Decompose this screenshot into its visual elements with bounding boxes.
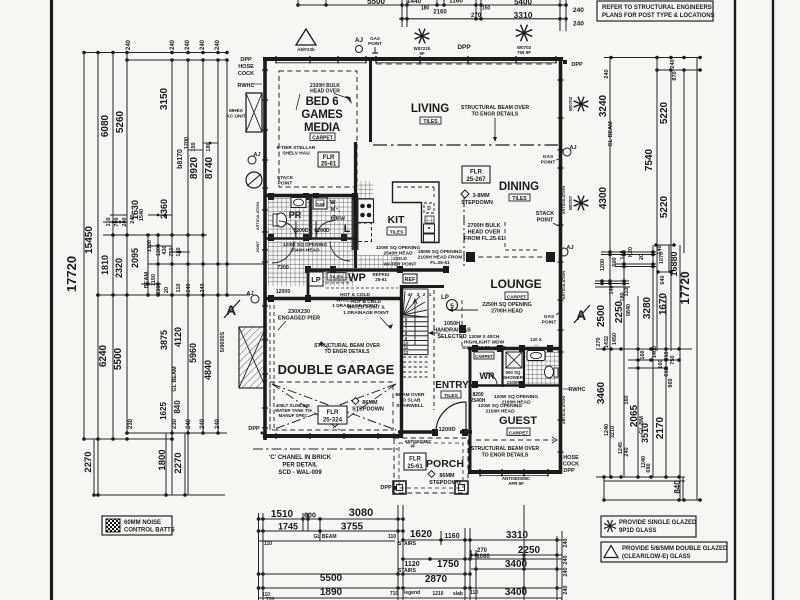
svg-text:1450: 1450 [612,333,618,345]
svg-text:7200D: 7200D [293,228,309,234]
svg-text:3310: 3310 [514,10,533,20]
svg-text:5: 5 [450,303,454,310]
svg-text:HEAD OVER: HEAD OVER [310,89,340,95]
kitchen fridge [424,224,435,233]
svg-text:POINT: POINT [278,181,293,187]
svg-text:8740: 8740 [204,156,215,179]
svg-text:...: ... [534,342,538,347]
svg-text:240: 240 [215,39,221,50]
wall wr right [501,349,503,388]
svg-text:20: 20 [639,254,645,260]
lounge pier dashes [470,256,552,258]
svg-text:REFER TO STRUCTURAL ENGINEERS: REFER TO STRUCTURAL ENGINEERS [602,5,712,11]
svg-text:3310: 3310 [506,530,529,541]
right dim vertical lines [609,58,611,478]
svg-text:750: 750 [169,247,175,256]
svg-text:RWHC: RWHC [568,387,585,393]
svg-text:240: 240 [200,418,206,429]
svg-text:TO SLAB: TO SLAB [400,398,422,404]
svg-text:2270: 2270 [173,452,184,473]
wall top exterior [263,57,563,61]
svg-text:3460: 3460 [596,381,607,404]
svg-text:WATER POINT: WATER POINT [384,262,417,268]
garage dashed inner left [269,305,271,430]
svg-text:240: 240 [563,585,569,594]
bottom dim vertical lines [258,513,260,600]
dining bulkhead dashes [504,222,506,250]
pr door arc [279,221,296,238]
left dim vertical lines [83,53,85,440]
svg-text:POINT: POINT [541,160,556,166]
svg-text:b8170: b8170 [177,149,184,169]
svg-text:LP: LP [441,295,449,301]
bed6 flr tag [318,152,339,167]
svg-text:2320: 2320 [114,258,124,278]
svg-text:2160: 2160 [433,10,447,16]
wr door arc [485,373,497,385]
svg-text:TILES: TILES [390,230,404,236]
svg-text:240: 240 [624,447,630,456]
svg-text:STRUCTURAL BEAM OVER: STRUCTURAL BEAM OVER [461,105,529,111]
svg-text:2250: 2250 [614,300,625,323]
wall left exterior [263,57,267,440]
svg-text:TUB: TUB [316,202,324,207]
svg-text:GL BEAM: GL BEAM [608,121,614,147]
pr toilet [276,213,287,227]
dining stepdown note [461,190,469,198]
svg-text:PR: PR [289,210,302,220]
wall hall-wp [308,268,449,271]
wall guest left [469,430,472,473]
svg-text:TILES: TILES [444,393,458,399]
svg-text:TO ENGR DETAILS: TO ENGR DETAILS [472,112,519,118]
window asterisk right upper [581,104,588,107]
svg-text:TO ENGR DETAILS: TO ENGR DETAILS [482,453,529,459]
svg-text:180W SQ OPENING: 180W SQ OPENING [418,249,463,255]
svg-text:2360: 2360 [159,199,169,219]
svg-text:1400: 1400 [652,346,658,358]
svg-text:CONTROL BATTS: CONTROL BATTS [124,528,175,534]
wall entry right [469,349,472,435]
svg-text:6080: 6080 [100,114,111,137]
svg-text:160: 160 [624,395,630,404]
svg-text:1210: 1210 [432,591,443,597]
svg-text:STAIRWELL: STAIRWELL [396,403,424,409]
svg-text:240: 240 [186,418,192,429]
living sill dashes [376,63,556,65]
svg-text:1 DRAINAGE POINT: 1 DRAINAGE POINT [343,310,389,316]
svg-text:3875: 3875 [159,330,169,350]
svg-text:ARTICULATION: ARTICULATION [256,202,260,230]
svg-text:TO ENGR DETAILS: TO ENGR DETAILS [324,349,370,355]
frame right outer border line [772,0,774,600]
svg-text:1050H: 1050H [444,321,460,327]
svg-text:1620: 1620 [410,529,433,540]
dining flr tag [462,166,490,183]
svg-text:COLD: COLD [393,256,407,262]
svg-text:HOSE: HOSE [563,455,579,461]
laundry fw [331,215,336,220]
svg-text:1810: 1810 [100,255,110,275]
left dim top connectors [84,52,227,54]
wall garage top [264,297,403,300]
svg-text:600: 600 [304,513,316,520]
svg-text:DPP: DPP [380,485,392,491]
svg-text:DINING: DINING [499,181,539,193]
svg-text:3400: 3400 [505,559,528,570]
svg-text:slab: slab [453,591,463,597]
svg-text:GAMES: GAMES [301,109,343,121]
svg-text:1625: 1625 [159,402,168,420]
svg-text:HIGHLIGHT WDW: HIGHLIGHT WDW [464,340,505,346]
svg-text:JOINT: JOINT [256,241,260,253]
svg-text:PROVIDE 5/8/5MM DOUBLE GLAZED: PROVIDE 5/8/5MM DOUBLE GLAZED [622,546,728,552]
svg-text:240: 240 [186,283,192,292]
entry door arc [436,402,466,432]
svg-text:9F: 9F [419,51,425,56]
svg-text:25-267: 25-267 [466,176,486,183]
svg-text:STRUCTURAL BEAM OVER: STRUCTURAL BEAM OVER [471,446,539,452]
porch post right [455,481,468,494]
svg-text:700: 700 [114,217,120,226]
svg-text:870: 870 [672,71,678,80]
svg-text:2270: 2270 [83,451,94,472]
wall garage bottom [263,434,400,438]
kitchen bench dashed inner [397,187,434,197]
svg-text:GL BEAM: GL BEAM [314,534,337,540]
svg-text:SCD - WAL-009: SCD - WAL-009 [278,470,322,476]
svg-text:1060: 1060 [476,554,490,560]
svg-text:8-TIER STELLAR: 8-TIER STELLAR [277,145,316,151]
svg-text:3240: 3240 [598,94,609,117]
svg-text:5260: 5260 [115,110,126,133]
svg-text:25-324: 25-324 [323,417,343,424]
svg-text:POINT: POINT [542,320,557,326]
svg-text:2540H HEAD: 2540H HEAD [290,248,320,254]
hatched pier rect [239,327,266,388]
svg-text:1200D: 1200D [438,427,455,433]
svg-text:240: 240 [200,283,206,292]
svg-text:160: 160 [640,350,646,359]
svg-text:W0702: W0702 [568,96,573,111]
wall guest bottom ticks [479,469,481,475]
tiles powder-laundry area [268,198,353,238]
svg-text:25-61: 25-61 [407,464,423,470]
svg-text:DPP: DPP [571,62,583,68]
svg-text:COCK: COCK [563,462,579,468]
bath shower [506,352,522,368]
porch dashed outline [394,438,468,493]
svg-text:2170: 2170 [655,416,666,439]
laundry door arc [316,221,333,238]
svg-text:240: 240 [573,7,584,14]
wall right exterior [559,57,563,474]
svg-text:1160: 1160 [449,0,463,5]
left dim bottom connectors [127,432,227,434]
svg-text:2100H HEAD: 2100H HEAD [501,400,531,406]
svg-text:W: W [330,200,336,206]
svg-text:FLR: FLR [409,457,421,463]
svg-text:690: 690 [646,463,652,472]
svg-text:'C' CHANEL IN BRICK: 'C' CHANEL IN BRICK [269,455,332,461]
svg-text:BEAM OVER: BEAM OVER [395,392,425,398]
wall wp left [307,270,310,298]
porch stepdown note [428,471,435,478]
svg-text:1100: 1100 [147,240,153,252]
svg-text:GL BM: GL BM [639,416,645,434]
svg-text:(CLEAR/LOW-E) GLASS: (CLEAR/LOW-E) GLASS [622,554,691,560]
circle 5 marker [447,300,458,311]
svg-text:GAS: GAS [543,154,554,160]
svg-text:AJ: AJ [355,37,364,44]
svg-text:120W SQ OPENING: 120W SQ OPENING [283,242,328,248]
left dim middle connectors [103,234,207,236]
svg-text:2870: 2870 [425,574,448,585]
svg-text:640: 640 [660,275,666,284]
svg-text:2250: 2250 [518,545,541,556]
svg-text:12000: 12000 [276,289,291,295]
svg-text:STACK: STACK [277,175,294,181]
svg-text:COCK: COCK [238,71,254,77]
svg-text:LIVING: LIVING [411,103,449,115]
svg-text:3150: 3150 [159,87,170,110]
svg-text:5960: 5960 [188,343,198,363]
lounge opening arrow [452,309,478,311]
svg-text:140: 140 [620,250,626,259]
svg-text:3755: 3755 [341,522,364,533]
svg-text:0840: 0840 [626,304,632,316]
bottom dim horizontal lines [259,518,404,520]
svg-text:1200: 1200 [184,137,190,149]
svg-text:240: 240 [200,39,206,50]
svg-text:240: 240 [170,39,176,50]
tiles kitchen splashback [357,181,373,199]
svg-text:9P1D GLASS: 9P1D GLASS [619,528,656,534]
frame right inner border line [734,0,736,600]
tiles hall area [268,241,354,286]
svg-text:240: 240 [126,39,132,50]
svg-text:DPP: DPP [248,426,260,432]
svg-text:ARTICULATION: ARTICULATION [562,271,566,299]
svg-text:DPP: DPP [457,44,471,51]
svg-text:3080: 3080 [349,507,373,519]
svg-text:200: 200 [122,217,128,226]
svg-text:MHEX: MHEX [229,108,244,114]
svg-text:120W SQ OPENING: 120W SQ OPENING [494,394,539,400]
svg-text:860: 860 [668,378,674,387]
svg-text:POINT: POINT [537,218,554,224]
svg-text:ENTRY: ENTRY [435,380,469,391]
svg-text:5220: 5220 [659,101,670,124]
svg-text:POINT: POINT [368,41,382,46]
garage dashed box [270,382,393,430]
svg-text:1745: 1745 [278,522,298,532]
svg-text:5500: 5500 [113,347,124,370]
svg-text:D: D [427,206,431,212]
svg-text:TILES: TILES [330,275,344,281]
svg-text:240: 240 [573,21,584,28]
svg-text:FLR: FLR [470,169,483,176]
window symbol asterisk W0702 [524,33,532,36]
svg-text:2500: 2500 [596,304,607,327]
svg-text:7200: 7200 [277,265,289,271]
svg-text:240: 240 [563,538,569,547]
svg-text:L: L [344,223,351,235]
wall wr bottom [470,384,524,386]
wp shelf dashes [326,282,350,284]
kitchen cooktop [358,199,374,223]
svg-text:M: M [331,207,336,213]
svg-text:K20: K20 [628,247,634,257]
wp lp tag [309,272,323,286]
garage c-channel dashdot [253,448,398,450]
svg-text:240: 240 [130,214,136,223]
svg-text:5220: 5220 [659,195,670,218]
svg-text:GAS: GAS [544,314,555,320]
svg-text:20: 20 [164,287,170,293]
svg-text:1670: 1670 [658,292,669,315]
living beam arrow [494,118,496,138]
garage flr tag [318,406,347,424]
svg-text:2100H: 2100H [507,380,520,385]
svg-text:110: 110 [264,541,272,547]
svg-text:PROVIDE SINGLE GLAZED: PROVIDE SINGLE GLAZED [619,520,697,526]
svg-text:CARPET: CARPET [312,136,333,142]
svg-text:legend: legend [404,590,420,596]
svg-text:240: 240 [185,39,191,50]
svg-text:STAIRS: STAIRS [398,568,417,574]
svg-text:LOUNGE: LOUNGE [490,277,541,291]
hall door arcs [272,241,294,263]
garage diag dashdot 2 [272,384,396,430]
wall bath bottom [524,384,562,386]
legend single glazed [601,516,696,537]
kitchen pantry hatch [425,216,434,223]
svg-text:ARTICULATION: ARTICULATION [562,186,566,214]
svg-text:180: 180 [206,142,212,151]
svg-text:12: 12 [404,350,409,355]
svg-text:270: 270 [471,13,482,19]
garage diag dashdot 1 [272,384,396,430]
bed6 dashed robe rect [279,71,357,187]
double-glazed triangle symbol [296,29,316,45]
svg-text:STAIRS: STAIRS [398,541,417,547]
svg-text:STEPDOWN: STEPDOWN [461,200,493,206]
svg-text:2095: 2095 [130,248,140,268]
legend double glazed [601,542,727,562]
ac unit box [246,93,262,132]
svg-text:110: 110 [106,218,112,227]
svg-text:WATER POINT &: WATER POINT & [347,305,385,311]
porch flr tag [404,453,426,470]
svg-text:MANUF SPEC: MANUF SPEC [278,413,308,418]
bed6 carpet tag [310,133,335,141]
garage stepdown note [352,398,359,405]
svg-text:1750: 1750 [437,559,460,570]
svg-text:DOUBLE GARAGE: DOUBLE GARAGE [278,362,395,377]
porch inner dashed [399,443,463,488]
living dining dashdot line [373,144,558,146]
svg-text:7540: 7540 [644,148,655,171]
legend noise batts [102,516,172,535]
svg-text:4840: 4840 [203,360,213,380]
right dim middle and bottom connectors [601,251,656,253]
svg-text:756 9F: 756 9F [517,50,531,55]
svg-text:SILL2400 TO HEAD: SILL2400 TO HEAD [462,345,506,351]
svg-text:1510: 1510 [271,509,294,520]
svg-text:150: 150 [191,142,197,151]
svg-text:110: 110 [470,590,478,596]
svg-text:180: 180 [176,247,182,256]
svg-text:1150: 1150 [151,274,157,286]
svg-text:710: 710 [390,591,399,597]
svg-text:230: 230 [128,418,134,429]
svg-text:5400: 5400 [514,0,532,7]
wp ref tag [403,274,417,283]
top dimension lines [298,4,566,6]
window asterisk right lower [581,203,588,206]
kitchen dw [424,203,434,213]
svg-text:1120: 1120 [404,561,419,568]
svg-text:840: 840 [673,480,682,494]
svg-text:610: 610 [664,367,670,376]
svg-text:140: 140 [657,245,663,254]
wall pr bottom [265,237,358,240]
svg-text:ANTISEISMIC: ANTISEISMIC [405,439,432,444]
svg-text:25-61: 25-61 [375,277,387,282]
frame left border line [50,0,53,600]
svg-text:4120: 4120 [173,327,183,347]
svg-text:240: 240 [604,69,610,78]
svg-text:1440: 1440 [407,0,422,5]
svg-text:MEDIA: MEDIA [304,122,340,134]
svg-text:1540: 1540 [139,209,145,221]
svg-text:SHELV HAU: SHELV HAU [282,151,310,157]
svg-text:1200: 1200 [600,259,606,271]
svg-text:240: 240 [670,59,676,68]
svg-text:GL BEAM: GL BEAM [172,366,178,392]
svg-text:STACK: STACK [536,211,555,217]
svg-text:PER DETAIL: PER DETAIL [282,463,318,469]
svg-text:HOT & COLD: HOT & COLD [351,299,381,305]
wall stairwell top [402,285,445,288]
svg-text:120W X 40CH: 120W X 40CH [469,334,500,340]
wall entry front [398,430,436,433]
svg-text:TILES: TILES [423,119,438,125]
svg-text:RWHC: RWHC [237,83,254,89]
svg-text:A5/F23b: A5/F23b [297,47,315,52]
wall kitchen tall units [354,142,357,268]
wp label [327,273,346,281]
svg-text:AC UNIT: AC UNIT [226,114,246,120]
svg-text:110: 110 [176,284,182,293]
svg-text:6240: 6240 [98,344,109,367]
svg-text:240: 240 [563,555,569,564]
kitchen opening dashdot [463,197,465,268]
svg-text:86MM: 86MM [439,473,455,479]
svg-text:2100H HEAD FROM: 2100H HEAD FROM [418,255,463,261]
svg-text:REF: REF [405,277,417,283]
svg-text:BED 6: BED 6 [306,96,339,108]
svg-text:150: 150 [482,6,491,12]
svg-text:CARPET: CARPET [475,354,493,359]
svg-text:DPP: DPP [563,468,575,474]
svg-text:600: 600 [612,257,618,266]
wall stairwell left [400,285,403,438]
svg-text:230: 230 [172,418,178,429]
window symbol asterisk W0722 [422,36,429,39]
svg-text:17720: 17720 [64,256,79,292]
